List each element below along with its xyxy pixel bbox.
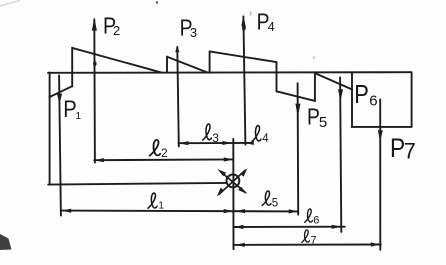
load shape T3 right edge — [276, 62, 278, 91]
svg-text:1: 1 — [75, 110, 81, 122]
label P7 — [390, 133, 416, 163]
dim arrowhead l5 right — [289, 209, 298, 213]
svg-text:P: P — [354, 80, 369, 109]
arrowhead P7 — [378, 130, 383, 141]
label l5 — [262, 191, 278, 209]
dim arrowhead l5 left — [236, 209, 245, 213]
dim arrowhead l2 right — [224, 157, 233, 161]
svg-text:5: 5 — [272, 198, 278, 210]
load triangle T2 hypotenuse — [167, 57, 208, 73]
label P1 — [63, 95, 81, 122]
label P4 — [257, 10, 275, 35]
dim arrowhead l1 left — [62, 209, 71, 213]
load triangle T2 vertical edge — [166, 57, 168, 73]
svg-text:3: 3 — [190, 25, 197, 40]
dimension line l7 — [234, 244, 381, 246]
load triangle T1 vertical edge — [71, 48, 73, 87]
force P5 arrow line — [297, 83, 300, 214]
link line to pivot — [48, 183, 226, 185]
dim arrowhead l4 — [246, 141, 254, 145]
label l6 — [305, 209, 320, 227]
label l7 — [302, 230, 317, 247]
force P2 arrow line — [93, 20, 96, 163]
arrowhead P6 — [338, 89, 343, 101]
load rectangle left edge — [351, 72, 353, 127]
load shape B2 right edge — [314, 73, 316, 101]
svg-text:4: 4 — [262, 133, 269, 145]
dim arrowhead l2 left — [95, 158, 104, 162]
load triangle B1 left edge + left extension line — [49, 73, 51, 185]
dim arrowhead l3 right — [223, 141, 232, 145]
load shape T3 top edge — [210, 51, 277, 62]
load shape T3 left edge — [209, 51, 211, 72]
load triangle T1 hypotenuse — [72, 48, 161, 73]
dimension line l2 — [94, 158, 233, 161]
load shape B2 bottom slope — [277, 91, 315, 101]
corner smudge bottom left — [0, 234, 12, 250]
dim arrowhead l7 left — [236, 243, 245, 247]
force P3 arrow line — [177, 47, 179, 146]
force P4 arrow line — [243, 17, 245, 145]
label P6 — [354, 80, 377, 109]
svg-text:4: 4 — [268, 20, 275, 34]
dimension line l3 l4 — [179, 142, 252, 144]
arrowhead P1 — [57, 94, 62, 104]
label P5 — [307, 105, 327, 131]
svg-text:2: 2 — [113, 23, 120, 38]
arrowhead P2 — [92, 18, 97, 31]
svg-text:1: 1 — [158, 200, 164, 211]
ink blob on P2 line — [93, 61, 97, 66]
arrowhead P4 — [241, 15, 245, 26]
speck top middle — [156, 1, 158, 3]
pivot axis line — [232, 139, 234, 249]
label l2 — [150, 140, 168, 160]
svg-text:2: 2 — [161, 146, 168, 160]
arrowhead P5 — [295, 104, 300, 117]
load rectangle right edge — [411, 72, 413, 127]
svg-text:5: 5 — [319, 114, 327, 131]
dim arrowhead l7 right — [371, 242, 380, 246]
force P7 arrow line — [379, 100, 381, 250]
svg-text:6: 6 — [369, 93, 377, 110]
label l1 — [148, 193, 164, 211]
pivot diagonal NE-SW — [217, 168, 248, 196]
pivot diagonal NW-SE — [218, 169, 247, 194]
dim arrowhead l6 right — [332, 225, 341, 229]
faint top-left diagonal — [0, 1, 20, 7]
label l3 — [203, 124, 220, 145]
dimension line l1 l5 — [62, 210, 299, 213]
svg-text:3: 3 — [212, 131, 219, 145]
svg-text:6: 6 — [313, 215, 319, 227]
speck near P6 area — [313, 57, 315, 59]
load shape B3 slope — [315, 73, 352, 89]
svg-text:7: 7 — [404, 139, 416, 164]
label P2 — [103, 12, 120, 39]
dim arrowhead l6 left — [234, 225, 243, 229]
beam top line — [48, 71, 412, 74]
ink blob on P4 line — [242, 24, 246, 30]
force P1 arrow line — [59, 75, 61, 215]
dimension line l6 — [234, 226, 345, 228]
load rectangle bottom edge — [352, 126, 412, 128]
svg-text:7: 7 — [311, 235, 317, 247]
label l4 — [252, 126, 269, 145]
dim arrowhead l1 right — [224, 209, 233, 213]
arrowhead P3 — [175, 46, 179, 53]
force P6 arrow line — [340, 77, 341, 232]
faint dash near P4 tip — [250, 11, 252, 16]
load triangle B1 slope — [49, 86, 72, 97]
pivot circle — [227, 175, 240, 188]
dim arrowhead l3 left — [179, 141, 188, 145]
label P3 — [180, 16, 198, 41]
